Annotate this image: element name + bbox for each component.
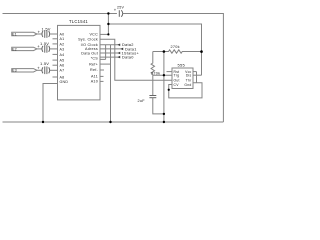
wire Vcc-Thr vertical	[196, 72, 198, 83]
node 270k left junction	[163, 50, 166, 53]
pin stub A8	[53, 76, 58, 78]
svg-text:A8: A8	[60, 75, 65, 79]
wire E3 to battery B3	[37, 69, 42, 71]
svg-text:A6: A6	[60, 64, 65, 68]
battery B1 1.5V	[41, 31, 44, 37]
svg-text:A5: A5	[60, 59, 65, 63]
node Data1 arrow	[120, 48, 123, 51]
resistor R2 270k vertical	[151, 52, 154, 76]
svg-text:A0: A0	[60, 32, 65, 36]
ground rail	[3, 121, 224, 123]
capacitor C2 2uF plates	[149, 95, 156, 97]
node 270k right junction	[200, 50, 203, 53]
wire Ref+	[100, 63, 111, 65]
svg-text:555: 555	[178, 62, 186, 67]
svg-text:+: +	[114, 7, 117, 12]
svg-text:+: +	[37, 44, 40, 49]
pin stub A6	[53, 64, 58, 66]
svg-text:*CS: *CS	[91, 57, 99, 61]
battery B2 1.5V	[41, 46, 44, 52]
svg-text:E3: E3	[12, 69, 17, 73]
svg-text:A7: A7	[60, 69, 65, 73]
node 555 gnd loop junction	[168, 89, 170, 91]
wire CS / Data0	[100, 56, 120, 58]
svg-text:1.5V: 1.5V	[42, 26, 51, 31]
wire Dis to +V riser	[193, 74, 202, 76]
svg-text:Data0: Data0	[122, 55, 134, 60]
junction dots	[42, 12, 203, 123]
resistor R1 270k horizontal	[153, 50, 202, 53]
pin stub A11	[100, 75, 104, 77]
wire top rail right part to ground loop	[123, 14, 223, 123]
IC U1 TLC1541 box	[58, 25, 101, 100]
wire B1 to pin A0	[50, 33, 58, 35]
svg-text:Trg: Trg	[174, 74, 180, 78]
node Vcc pin junction	[107, 33, 109, 35]
wire GND pin to ground rail	[43, 84, 58, 123]
wire vertical to ground rail	[110, 45, 112, 122]
svg-text:A3: A3	[60, 47, 65, 51]
node Trg junction	[163, 74, 165, 76]
svg-text:VCC: VCC	[89, 32, 98, 36]
wire Adress / Data1	[100, 48, 123, 50]
node rail gnd junction	[42, 121, 44, 123]
wire B2 to pin A3	[50, 48, 58, 50]
svg-text:A4: A4	[60, 53, 65, 57]
svg-text:+: +	[37, 66, 40, 71]
node Vcc-feed junction	[107, 23, 109, 25]
node rail vertical junction	[109, 121, 111, 123]
wire I/O Clock / Data2	[100, 44, 120, 46]
node 1Status+ arrow	[117, 52, 120, 55]
wire Thr loop	[169, 83, 202, 98]
svg-text:A10: A10	[91, 80, 98, 84]
pin stub A4	[53, 53, 58, 55]
wire E1 to battery B1	[37, 33, 42, 35]
connector E3	[12, 69, 37, 72]
capacitor C2 bottom lead	[153, 98, 164, 114]
svg-text:Dis: Dis	[186, 74, 192, 78]
pin stub Ref-	[100, 69, 104, 71]
svg-text:1.5V: 1.5V	[40, 61, 49, 66]
battery B3 1.5V	[41, 67, 44, 73]
pin stub A2	[53, 43, 58, 45]
svg-text:GND: GND	[60, 80, 69, 84]
pin stub A10	[100, 80, 104, 82]
wire VCC pin stub	[100, 33, 108, 35]
node Vcc-rail junction	[107, 12, 109, 14]
connector E2	[12, 47, 37, 50]
svg-text:A11: A11	[91, 75, 98, 79]
node cap junction	[163, 113, 165, 115]
connector E1	[12, 32, 37, 35]
wire Sys Clock from 555 Out	[100, 39, 172, 80]
wire +V feed to 555	[108, 24, 201, 75]
svg-text:TLC1541: TLC1541	[69, 19, 88, 24]
svg-text:A2: A2	[60, 42, 65, 46]
arrowheads	[117, 44, 123, 59]
svg-text:CV: CV	[174, 83, 180, 87]
wire timing node to 555 Trg	[153, 74, 172, 76]
svg-text:1.5V: 1.5V	[40, 41, 49, 46]
svg-text:2uF: 2uF	[138, 99, 146, 103]
node Data0 arrow	[117, 56, 120, 59]
wire VCC riser	[107, 14, 109, 35]
pin stub Vcc to +V	[193, 71, 197, 73]
svg-text:Sys. Clock: Sys. Clock	[78, 38, 98, 42]
node Data2 arrow	[117, 44, 120, 47]
svg-text:I/O Clock: I/O Clock	[81, 43, 98, 47]
svg-text:Ref-: Ref-	[90, 68, 98, 72]
svg-text:+: +	[38, 29, 41, 34]
svg-text:Data Out: Data Out	[81, 52, 98, 56]
svg-text:E1: E1	[12, 32, 17, 36]
wire Data Out / 1Status+	[100, 52, 120, 54]
svg-text:E2: E2	[12, 47, 17, 51]
wire E2 to battery B2	[37, 48, 42, 50]
svg-text:270k: 270k	[171, 45, 180, 49]
wire discharge vertical to rail	[163, 52, 165, 123]
svg-text:Adress: Adress	[85, 47, 98, 51]
wire top +V rail left part	[3, 13, 117, 15]
wire B3 to pin A7	[50, 69, 58, 71]
svg-text:270k: 270k	[151, 72, 160, 76]
pin stub A5	[53, 59, 58, 61]
wire CS riser	[100, 45, 106, 60]
capacitor C1 25V	[118, 10, 120, 17]
capacitor C2 2uF top lead	[152, 75, 154, 95]
node rail discharge junction	[163, 121, 165, 123]
svg-text:Ref+: Ref+	[89, 62, 98, 66]
svg-text:Gnd: Gnd	[184, 83, 191, 87]
svg-text:A1: A1	[60, 37, 65, 41]
pin stub Rst	[167, 71, 173, 73]
pin stub A1	[53, 38, 58, 40]
IC U2 555 box	[172, 68, 193, 89]
svg-text:25V: 25V	[117, 5, 124, 9]
